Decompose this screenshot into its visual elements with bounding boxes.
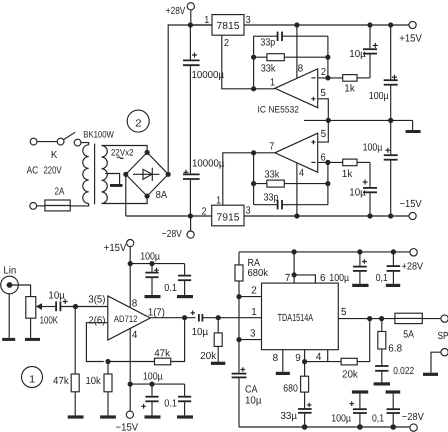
node bridge right: [166, 172, 171, 177]
wire speaker return: [431, 352, 441, 373]
wire 7915 pin1 to lower op-amp output node: [223, 153, 254, 205]
terminal speaker return: [441, 349, 448, 356]
node pin6 pin7 junction: [292, 272, 297, 277]
resistor 1k upper: [343, 75, 370, 82]
node 33k right lower: [325, 181, 330, 186]
wire AC to fuse: [37, 205, 45, 207]
wire fuse to primary: [70, 204, 89, 206]
capacitor C1 10000u upper: [183, 25, 200, 174]
node pin3 junction: [236, 337, 241, 342]
svg-text:AC: AC: [27, 166, 39, 177]
ground pot: [25, 338, 40, 341]
svg-text:AD712: AD712: [114, 314, 137, 324]
svg-text:33µ: 33µ: [281, 411, 298, 422]
input jack Lin: [1, 276, 19, 294]
svg-text:22Vx2: 22Vx2: [111, 148, 134, 158]
svg-text:6: 6: [320, 273, 326, 284]
node 20k input junction: [216, 315, 221, 320]
capacitor 100u minus28: [349, 394, 366, 427]
wire jack ground stub: [8, 294, 10, 338]
wire bridge left to -28V rail: [125, 174, 127, 216]
svg-text:5: 5: [320, 88, 326, 99]
node pin6 junction lower: [325, 160, 330, 165]
wire +28V rail to bridge: [168, 25, 212, 172]
wire output to apex upper: [254, 88, 275, 90]
wire -28V rail lower section: [239, 426, 410, 428]
svg-text:5A: 5A: [403, 330, 414, 341]
resistor 33k lower: [254, 180, 328, 187]
capacitor 0.1 plus28: [387, 252, 401, 284]
svg-text:CA: CA: [245, 385, 258, 396]
wire -15V terminal stub: [129, 384, 131, 411]
svg-text:10µ: 10µ: [192, 327, 209, 338]
node feedback junction: [105, 359, 110, 364]
svg-text:4: 4: [132, 330, 138, 341]
switch K: [57, 132, 81, 146]
op-amp U1b NE5532 lower: [275, 133, 318, 172]
svg-text:0,1: 0,1: [372, 413, 384, 424]
node input junction: [73, 304, 78, 309]
resistor 33k upper: [254, 54, 328, 61]
terminal +15V lower section: [127, 240, 134, 247]
svg-text:100µ: 100µ: [363, 142, 383, 153]
svg-text:20k: 20k: [342, 370, 359, 381]
svg-text:5: 5: [321, 129, 327, 140]
svg-text:K: K: [51, 150, 58, 161]
svg-text:4: 4: [299, 168, 304, 179]
ground 20k input load: [211, 362, 225, 365]
wire NE5532 pin4 supply: [296, 163, 298, 216]
terminal -15V lower section: [126, 411, 133, 418]
wire AD712 output: [150, 317, 195, 319]
svg-text:3: 3: [246, 15, 251, 26]
fuse F1 2A: [45, 200, 70, 211]
svg-text:33p: 33p: [264, 192, 279, 203]
node pin9 junction: [302, 359, 307, 364]
svg-text:3(5): 3(5): [88, 294, 105, 305]
ground 0.1 minus28: [386, 390, 401, 393]
svg-text:100µ: 100µ: [369, 91, 389, 102]
fuse F2 5A: [395, 313, 441, 323]
svg-text:1k: 1k: [344, 83, 355, 94]
terminal -28V lower section: [410, 424, 417, 431]
node bridge top: [145, 150, 150, 155]
node 100u minus28 junction: [357, 424, 363, 430]
ground speaker return: [423, 373, 438, 376]
wire center tap: [105, 174, 119, 185]
node -28V junction: [188, 213, 193, 218]
svg-text:10µ: 10µ: [349, 187, 366, 198]
svg-text:8: 8: [132, 298, 138, 309]
wire feedback left vertical upper: [253, 36, 255, 89]
svg-text:0.1: 0.1: [164, 283, 177, 294]
node 33u rail junction: [302, 424, 308, 430]
wire noninverting stub upper: [318, 99, 329, 121]
ground 100u minus28: [352, 390, 368, 393]
svg-text:2: 2: [321, 67, 326, 78]
svg-text:−15V: −15V: [116, 422, 139, 432]
ground 0.1 plus15: [177, 295, 193, 298]
svg-text:20k: 20k: [200, 351, 217, 362]
wire pin5 output: [338, 318, 395, 320]
capacitor 33u: [298, 403, 312, 427]
svg-text:0.1: 0.1: [164, 398, 177, 409]
resistor 47k feedback: [108, 318, 185, 365]
svg-text:9: 9: [295, 353, 301, 364]
terminal +15V top: [409, 21, 416, 28]
resistor 20k feedback TDA: [305, 319, 370, 365]
wire pin2 TDA: [239, 296, 262, 298]
wire noninverting stub lower: [318, 120, 329, 142]
resistor RA 680k: [235, 252, 243, 297]
svg-text:3: 3: [250, 329, 256, 340]
capacitor 0.1 minus28: [387, 394, 401, 427]
terminal AC input upper: [30, 138, 37, 145]
regulator U2 7815: [212, 15, 244, 36]
svg-text:1: 1: [216, 195, 221, 206]
capacitor 33p lower feedback: [254, 200, 328, 209]
op-amp U4 AD712: [108, 296, 151, 340]
wire +15V decouple: [130, 263, 184, 265]
svg-text:100µ: 100µ: [143, 371, 163, 382]
svg-text:10µ: 10µ: [245, 396, 262, 407]
wire jack to pot: [12, 285, 31, 297]
svg-text:100K: 100K: [40, 316, 59, 327]
svg-text:33k: 33k: [261, 63, 277, 74]
svg-text:TDA1514A: TDA1514A: [278, 313, 314, 324]
bridge rectifier: [126, 152, 168, 196]
svg-text:0,1: 0,1: [376, 273, 388, 284]
capacitor 33p upper feedback: [254, 32, 328, 41]
terminal speaker out: [441, 315, 448, 322]
wire -15V decouple: [130, 383, 184, 385]
terminal -15V top: [409, 212, 416, 219]
wire +28V rail lower section: [239, 251, 410, 253]
capacitor 100u lower: [384, 120, 398, 216]
node 33k left lower: [251, 181, 256, 186]
svg-text:2: 2: [135, 119, 142, 130]
node output zobel junction: [379, 316, 384, 321]
node output 20k junction: [367, 316, 372, 321]
transformer T1 core: [94, 144, 96, 205]
svg-text:7915: 7915: [217, 212, 240, 223]
svg-text:680k: 680k: [248, 268, 269, 279]
wire secondary bottom to bridge: [102, 199, 148, 204]
svg-text:680: 680: [283, 383, 298, 394]
wire NE5532 pin8 supply: [296, 25, 298, 78]
node pin2 junction: [236, 294, 241, 299]
node pin7 rail junction: [292, 249, 297, 254]
wire -28V terminal stub: [190, 216, 192, 231]
resistor 20k input load: [214, 318, 222, 362]
wire pin7 supply: [293, 252, 295, 283]
wire pin9 stub TDA: [304, 350, 306, 362]
svg-text:10µ: 10µ: [349, 49, 366, 60]
node 0.1 plus28 junction: [391, 249, 396, 254]
op-amp U1a NE5532 upper: [275, 69, 318, 108]
amplifier U5 TDA1514A: [262, 283, 339, 350]
svg-text:4: 4: [316, 352, 322, 363]
svg-text:220V: 220V: [44, 166, 62, 177]
capacitor 0.1 plus15: [178, 264, 191, 295]
capacitor 10u input: [56, 299, 108, 311]
circled 2 section marker: [127, 110, 149, 132]
svg-text:2A: 2A: [55, 186, 65, 197]
svg-text:+28V: +28V: [402, 262, 424, 273]
svg-text:1: 1: [251, 307, 257, 318]
svg-text:8: 8: [298, 64, 304, 75]
svg-text:7815: 7815: [217, 21, 240, 32]
ground 100u plus15: [145, 295, 161, 298]
svg-text:10000µ: 10000µ: [192, 158, 225, 169]
node +15V decouple junction: [128, 261, 133, 266]
terminal +28V lower section: [410, 249, 417, 256]
node -15V pin4 junction: [128, 382, 133, 387]
wire pin4 stub TDA: [327, 350, 329, 362]
resistor 680: [301, 362, 309, 409]
svg-text:2: 2: [251, 286, 257, 297]
svg-text:IC NE5532: IC NE5532: [258, 104, 300, 114]
node bridge bottom: [145, 194, 150, 199]
node 10u lower rail: [367, 213, 372, 218]
wire 7815 input pin1: [190, 24, 212, 26]
svg-text:100µ: 100µ: [140, 252, 160, 263]
label 22Vx2: [111, 148, 134, 159]
svg-text:33k: 33k: [265, 170, 281, 181]
svg-text:1: 1: [29, 374, 35, 385]
node output junction AD712: [182, 315, 187, 320]
capacitor 10u output coupling: [190, 311, 261, 322]
capacitor CA 10u: [232, 340, 247, 427]
wire 7815 pin2 to op-amp output node: [222, 35, 254, 89]
ground mid reference: [406, 120, 421, 133]
node plus inputs junction: [326, 118, 331, 123]
svg-text:−28V: −28V: [402, 412, 424, 423]
wire +15V rail: [244, 24, 409, 26]
capacitor 100u upper: [384, 25, 398, 120]
wire -28V rail left: [126, 215, 212, 217]
wire inverting input lower: [318, 161, 343, 163]
node +28V junction: [188, 22, 193, 27]
capacitor 100u minus15: [141, 384, 158, 415]
svg-text:SP: SP: [438, 331, 448, 342]
ground 100u minus15: [145, 415, 161, 418]
node bridge left: [123, 172, 128, 177]
wire output to apex lower: [254, 152, 275, 154]
terminal +28V top: [187, 3, 194, 10]
svg-text:1: 1: [204, 15, 209, 26]
resistor 47k input: [71, 307, 79, 416]
diode bridge symbol: [133, 168, 160, 181]
wire secondary top to bridge: [102, 146, 148, 150]
svg-text:2(6): 2(6): [88, 316, 105, 327]
svg-text:3: 3: [246, 205, 251, 216]
terminal -28V top section: [187, 231, 194, 238]
svg-text:−15V: −15V: [400, 199, 422, 210]
regulator U3 7915: [212, 205, 244, 226]
svg-text:BK100W: BK100W: [83, 130, 114, 140]
wire inverting input upper: [318, 77, 343, 79]
node output upper: [251, 86, 256, 91]
wire pot ground stub: [30, 319, 32, 338]
transformer T1 primary winding: [83, 145, 89, 204]
wire pin4 to -15V: [129, 329, 131, 385]
wire pin3 TDA: [239, 339, 262, 341]
svg-text:100µ: 100µ: [331, 413, 351, 424]
svg-text:7: 7: [285, 273, 291, 284]
capacitor 0.1 minus15: [178, 384, 191, 415]
svg-text:5: 5: [341, 307, 347, 318]
node pin4 rail junction: [294, 213, 299, 218]
wire AC to switch: [37, 141, 57, 143]
wire pin2 to pin3 vertical: [238, 297, 240, 340]
wire pin8 stub TDA: [282, 350, 284, 372]
node 100u plus28 junction: [357, 249, 362, 254]
svg-text:1(7): 1(7): [148, 308, 165, 319]
svg-text:+28V: +28V: [166, 6, 186, 17]
capacitor 10u upper: [363, 25, 378, 78]
ground 0.1 plus28: [386, 284, 400, 287]
capacitor C2 10000u lower: [183, 170, 200, 216]
svg-text:8A: 8A: [156, 190, 168, 201]
ground 47k input: [68, 415, 84, 418]
node 33k left upper: [251, 55, 256, 60]
potentiometer 100K: [26, 297, 56, 319]
node 100u upper rail: [388, 22, 393, 27]
resistor 6.8 zobel: [378, 319, 386, 366]
ground 100u plus28: [352, 284, 368, 287]
ground jack: [2, 338, 15, 341]
terminal AC input lower: [30, 203, 37, 210]
wire -15V rail: [244, 215, 409, 217]
svg-text:47k: 47k: [154, 348, 171, 359]
transformer T1 secondary winding: [102, 146, 108, 204]
svg-text:6.8: 6.8: [388, 343, 402, 354]
node 7815 pin3 / opamp V+ junction: [294, 22, 299, 27]
ground pin8 TDA: [276, 372, 290, 375]
resistor 1k lower: [343, 159, 370, 166]
svg-text:100µ: 100µ: [329, 273, 349, 284]
wire feedback right vertical lower: [327, 162, 329, 204]
svg-text:Lin: Lin: [3, 265, 16, 276]
capacitor 100u plus15: [145, 264, 158, 295]
wire switch to primary: [81, 143, 89, 145]
svg-text:10k: 10k: [86, 376, 102, 387]
svg-text:47k: 47k: [53, 376, 70, 387]
resistor 10k: [104, 362, 112, 416]
capacitor 0.022 zobel: [375, 366, 388, 382]
svg-text:8: 8: [273, 353, 279, 364]
svg-text:2: 2: [224, 38, 229, 49]
node 100u plus junction: [149, 261, 154, 266]
wire mid reference line: [304, 119, 413, 121]
node 33k right upper: [325, 55, 330, 60]
wire +15V to pin8: [129, 247, 131, 308]
wire pin6 stub: [294, 275, 315, 283]
svg-text:0.022: 0.022: [393, 366, 414, 377]
node 10u upper rail: [367, 22, 372, 27]
node 100u lower rail: [388, 213, 393, 218]
node pin2 junction upper: [325, 75, 330, 80]
node 0.1 minus28 junction: [390, 424, 396, 430]
wire feedback right vertical upper: [327, 36, 329, 78]
ground center tap: [110, 184, 123, 187]
ground 0.1 minus15: [177, 415, 193, 418]
wire inverting loop: [86, 323, 107, 362]
node mid rail 100u junction: [388, 118, 393, 123]
circled 1 section marker: [22, 367, 43, 388]
node output lower: [251, 150, 256, 155]
capacitor 10u lower: [363, 162, 377, 216]
svg-text:−28V: −28V: [162, 229, 182, 240]
svg-text:10000µ: 10000µ: [192, 70, 225, 81]
node 100u minus junction: [149, 382, 154, 387]
svg-text:33p: 33p: [260, 37, 275, 48]
svg-text:1k: 1k: [342, 169, 353, 180]
svg-text:7: 7: [269, 142, 274, 153]
svg-text:10µ: 10µ: [48, 290, 65, 301]
ground 10k: [100, 415, 116, 418]
wire feedback left vertical lower: [253, 153, 255, 205]
svg-text:+15V: +15V: [104, 243, 127, 254]
svg-text:1: 1: [270, 77, 275, 88]
capacitor 100u plus28: [353, 252, 367, 284]
svg-text:2: 2: [202, 207, 207, 218]
wire +28V terminal stub: [190, 10, 192, 25]
svg-text:+15V: +15V: [399, 34, 422, 45]
ground zobel: [374, 382, 390, 385]
